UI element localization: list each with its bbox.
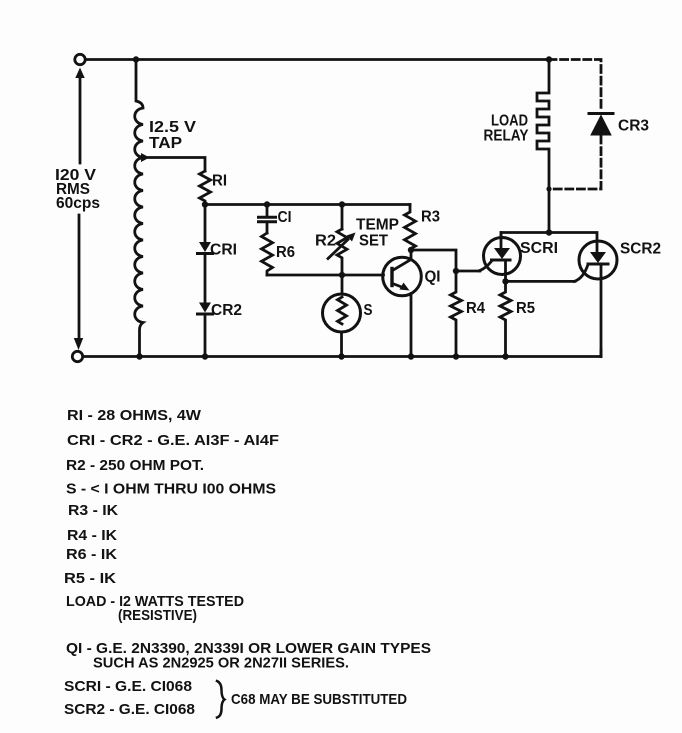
- diode CR3 cathode bar: [589, 112, 613, 115]
- junction dot bottom Q1 emitter: [408, 353, 414, 359]
- svg-text:R3 - IK: R3 - IK: [68, 502, 118, 519]
- svg-text:R2 - 250 OHM POT.: R2 - 250 OHM POT.: [66, 457, 204, 474]
- thermistor S circle: [323, 294, 361, 332]
- resistor R1: [200, 171, 211, 205]
- wire collector to R4 node: [411, 250, 456, 271]
- svg-text:(RESISTIVE): (RESISTIVE): [118, 607, 197, 624]
- dashed wire top to CR3: [549, 60, 601, 112]
- SCR1 anode stub: [500, 233, 503, 249]
- pot wiper arrow: [328, 240, 348, 259]
- 120V dimension arrow upper segment: [79, 77, 82, 163]
- SCR1: [484, 238, 521, 275]
- terminal top-left: [75, 54, 85, 64]
- SCR1 cathode bar: [492, 259, 511, 262]
- diode CR2: [199, 303, 211, 313]
- svg-text:SCRI - G.E. CI068: SCRI - G.E. CI068: [64, 678, 192, 695]
- svg-text:R4: R4: [466, 300, 485, 317]
- transformer primary winding: [135, 60, 143, 357]
- wire bottom rail: [83, 355, 601, 358]
- svg-text:CRI - CR2 - G.E. AI3F - AI4F: CRI - CR2 - G.E. AI3F - AI4F: [67, 432, 279, 449]
- Q1 emitter: [393, 284, 404, 288]
- svg-text:S - < I OHM THRU I00 OHMS: S - < I OHM THRU I00 OHMS: [66, 481, 276, 498]
- junction dot collector node: [408, 247, 414, 253]
- svg-text:TAP: TAP: [149, 135, 182, 152]
- junction dot R1 bottom: [202, 201, 208, 207]
- legend text: [64, 407, 431, 718]
- svg-text:R5 - IK: R5 - IK: [64, 570, 116, 587]
- load relay coil: [537, 60, 549, 233]
- svg-text:I2.5 V: I2.5 V: [149, 119, 196, 136]
- wire anode rail: [501, 233, 597, 242]
- junction dot base rail: [339, 272, 345, 278]
- junction dot bottom CR2: [202, 353, 208, 359]
- thermistor S stub: [341, 275, 344, 294]
- wire to SCR1 gate: [456, 270, 480, 273]
- svg-text:R5: R5: [516, 300, 535, 317]
- junction dot relay top: [546, 56, 552, 62]
- capacitor C1: [266, 205, 269, 216]
- svg-text:R2: R2: [315, 233, 336, 250]
- junction dot bottom R4: [453, 353, 459, 359]
- SCR1 triangle: [494, 248, 510, 259]
- potentiometer R2: [341, 205, 344, 230]
- junction dot R4 top: [453, 268, 459, 274]
- svg-text:CI: CI: [278, 209, 292, 226]
- junction dot bottom transformer: [136, 353, 142, 359]
- SCR2 cathode to bottom: [600, 264, 603, 357]
- svg-text:SCRI: SCRI: [520, 240, 558, 257]
- SCR2 gate curve: [574, 265, 588, 282]
- svg-text:R6 - IK: R6 - IK: [66, 546, 117, 563]
- arrowhead down: [74, 338, 83, 350]
- junction dot R2 top: [339, 201, 345, 207]
- wire S to bottom rail: [340, 332, 343, 357]
- brace: [217, 681, 225, 718]
- junction dot top of transformer: [133, 56, 139, 62]
- thermistor S squiggle: [338, 297, 347, 324]
- arrowhead up: [75, 68, 84, 79]
- svg-text:RI - 28 OHMS, 4W: RI - 28 OHMS, 4W: [67, 407, 202, 424]
- wire SCR1 cathode to SCR2 gate: [506, 280, 576, 283]
- diode CR1: [204, 205, 207, 242]
- svg-text:SET: SET: [359, 233, 388, 250]
- svg-text:R6: R6: [276, 244, 295, 261]
- svg-text:CR3: CR3: [618, 118, 649, 135]
- svg-text:SCR2 - G.E. CI068: SCR2 - G.E. CI068: [64, 701, 195, 718]
- junction dot bottom R5: [502, 353, 508, 359]
- dashed wire CR3 to bottom: [549, 136, 601, 189]
- wire base rail: [267, 274, 384, 277]
- svg-text:S: S: [364, 302, 373, 319]
- wire CR1 to CR2: [204, 254, 207, 303]
- wire CR2 to bottom rail: [204, 314, 207, 357]
- junction dot C1 top: [264, 201, 270, 207]
- transformer tap arrow: [141, 153, 150, 162]
- SCR1 gate curve: [479, 261, 492, 271]
- SCR2: [579, 241, 617, 279]
- terminal bottom-left: [72, 351, 82, 361]
- resistor R5: [500, 281, 511, 356]
- svg-text:SUCH AS 2N2925 OR 2N27II SERIE: SUCH AS 2N2925 OR 2N27II SERIES.: [93, 655, 349, 672]
- SCR2 cathode bar: [588, 263, 608, 266]
- svg-text:SCR2: SCR2: [620, 241, 661, 258]
- svg-text:R4 - IK: R4 - IK: [67, 527, 117, 544]
- diode CR3 triangle: [591, 116, 611, 136]
- junction dot SCR1 cathode: [502, 278, 508, 284]
- junction dot S bottom: [338, 353, 344, 359]
- 120V dimension arrow lower segment: [78, 215, 81, 338]
- svg-text:C68 MAY BE SUBSTITUTED: C68 MAY BE SUBSTITUTED: [231, 691, 407, 708]
- wire mid rail: [205, 203, 410, 206]
- svg-text:CR2: CR2: [211, 302, 242, 319]
- svg-text:R3: R3: [421, 209, 440, 226]
- svg-text:CRI: CRI: [210, 242, 237, 259]
- SCR1 cathode: [504, 260, 507, 281]
- Q1 base bar: [390, 269, 393, 286]
- wire tap to R1: [149, 158, 206, 172]
- junction dot relay bottom: [546, 229, 552, 235]
- svg-text:QI: QI: [425, 269, 441, 286]
- svg-text:RI: RI: [212, 173, 227, 190]
- SCR2 triangle: [590, 252, 606, 263]
- wire top rail: [86, 58, 550, 61]
- SCR2 cathode corner: [600, 350, 603, 357]
- svg-text:RELAY: RELAY: [484, 128, 529, 145]
- transistor Q1: [383, 257, 422, 296]
- resistor R3: [405, 205, 416, 251]
- resistor R6: [262, 233, 273, 275]
- resistor R4: [451, 271, 462, 357]
- svg-text:60cps: 60cps: [56, 195, 100, 212]
- junction dot dashed joins relay: [546, 186, 551, 191]
- Q1 collector: [393, 250, 412, 271]
- svg-text:TEMP: TEMP: [356, 217, 399, 234]
- SCR2 anode stub: [596, 241, 599, 252]
